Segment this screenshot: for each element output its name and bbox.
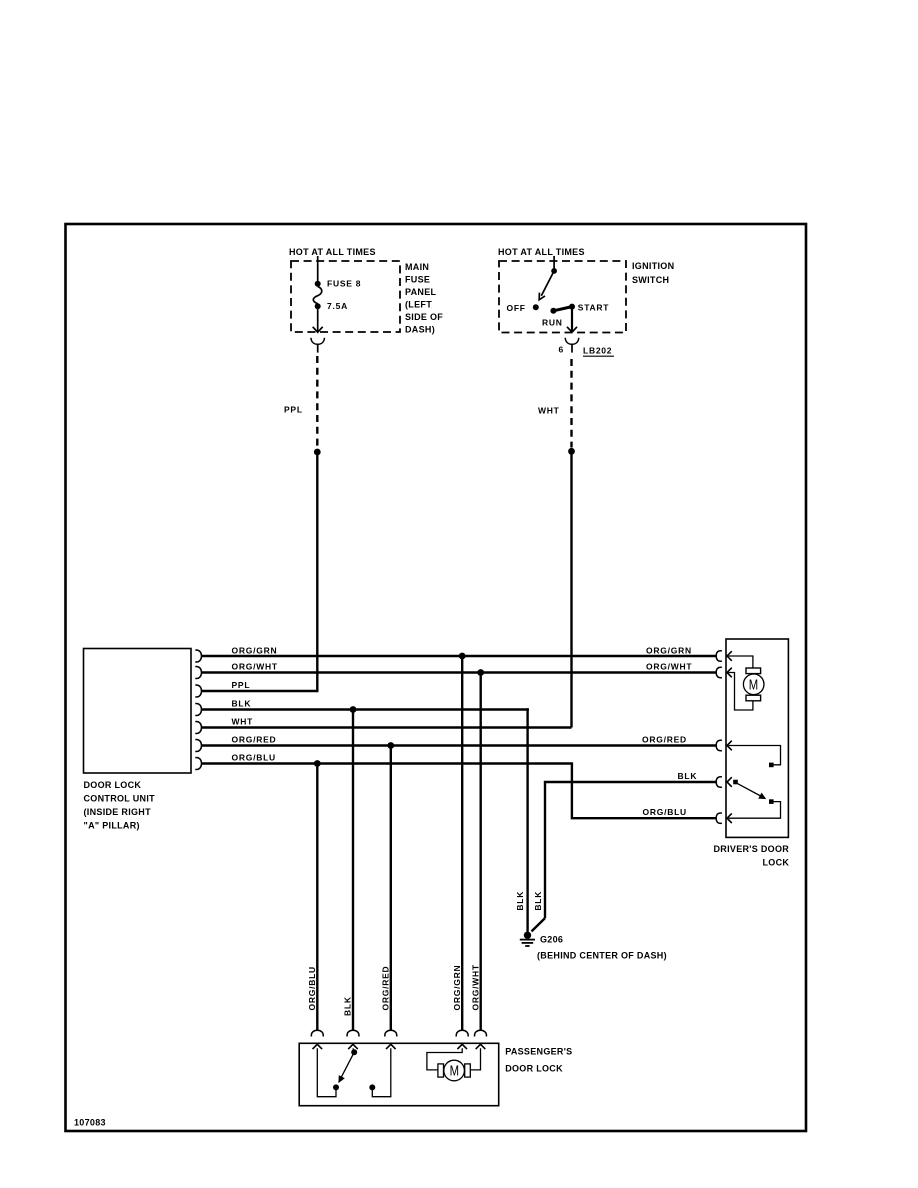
control unit pin fork 5 xyxy=(195,722,201,734)
svg-text:M: M xyxy=(450,1062,459,1079)
connector fork below fuse box xyxy=(311,338,325,345)
svg-text:G206: G206 xyxy=(540,935,563,945)
svg-text:FUSE 8: FUSE 8 xyxy=(327,279,361,289)
svg-text:107083: 107083 xyxy=(74,1118,106,1128)
svg-text:ORG/GRN: ORG/GRN xyxy=(646,646,692,656)
driver arrow ORG/BLU xyxy=(727,813,732,823)
driver switch arm arrowhead xyxy=(758,793,766,800)
junction dot ORG/RED xyxy=(387,742,394,749)
svg-text:SIDE OF: SIDE OF xyxy=(405,312,443,322)
connector fork below ignition box xyxy=(565,338,579,345)
svg-text:PPL: PPL xyxy=(284,405,303,415)
svg-text:"A" PILLAR): "A" PILLAR) xyxy=(84,821,140,831)
driver's door lock box xyxy=(726,639,788,837)
driver fork ORG/GRN xyxy=(716,651,722,661)
svg-text:ORG/WHT: ORG/WHT xyxy=(646,662,692,672)
svg-text:CONTROL UNIT: CONTROL UNIT xyxy=(84,794,156,804)
passenger motor M2 left brush xyxy=(438,1064,444,1077)
passenger motor wiring ORG/WHT xyxy=(470,1048,480,1070)
wire PPL row xyxy=(202,690,319,692)
control unit pin fork 2 xyxy=(195,667,201,679)
driver fork ORG/WHT xyxy=(716,667,722,677)
svg-text:HOT AT ALL TIMES: HOT AT ALL TIMES xyxy=(289,247,376,257)
wire WHT solid down xyxy=(570,451,572,727)
svg-text:IGNITION: IGNITION xyxy=(632,261,674,271)
control unit pin fork 4 xyxy=(195,704,201,716)
svg-text:DOOR LOCK: DOOR LOCK xyxy=(505,1064,563,1074)
svg-text:ORG/BLU: ORG/BLU xyxy=(232,753,276,763)
passenger motor M2 body xyxy=(444,1060,465,1081)
wire fuse to box edge xyxy=(317,309,319,332)
passenger arrow ORG/BLU xyxy=(313,1044,323,1049)
wire BLK diagonal into ground xyxy=(532,918,546,931)
svg-text:ORG/GRN: ORG/GRN xyxy=(452,965,462,1011)
svg-text:LOCK: LOCK xyxy=(763,858,790,868)
wire WHT row xyxy=(202,726,572,728)
junction dot BLK xyxy=(350,706,357,713)
svg-text:6: 6 xyxy=(559,345,564,355)
svg-text:ORG/WHT: ORG/WHT xyxy=(232,662,278,672)
wire START down xyxy=(571,307,573,331)
svg-text:SWITCH: SWITCH xyxy=(632,275,669,285)
fuse F8 element xyxy=(313,286,321,304)
label DRIVER'S DOOR LOCK xyxy=(714,844,790,868)
passenger wiring ORG/BLU to switch xyxy=(317,1048,336,1096)
ignition OFF contact dot xyxy=(533,304,539,310)
wire WHT dashed xyxy=(570,359,572,448)
driver arrow ORG/GRN xyxy=(727,651,732,661)
wire PPL dashed xyxy=(316,356,318,449)
svg-text:DOOR LOCK: DOOR LOCK xyxy=(84,780,142,790)
driver fork BLK xyxy=(716,777,722,787)
driver motor wiring ORG/WHT xyxy=(729,673,753,711)
wire into fuse box xyxy=(317,256,319,282)
svg-text:DASH): DASH) xyxy=(405,325,435,335)
passenger arrow ORG/RED xyxy=(386,1044,396,1049)
svg-text:PASSENGER'S: PASSENGER'S xyxy=(505,1047,572,1057)
svg-text:ORG/RED: ORG/RED xyxy=(232,735,277,745)
driver wiring ORG/BLU xyxy=(729,802,781,819)
control unit pin fork 3 xyxy=(195,685,201,697)
svg-text:FUSE: FUSE xyxy=(405,275,430,285)
fuse F8 bottom terminal dot xyxy=(315,303,321,309)
wire ORG/WHT down to passenger lock xyxy=(480,673,482,1031)
passenger fork ORG/GRN xyxy=(456,1030,468,1036)
wire ORG/RED row xyxy=(202,744,717,746)
label MAIN FUSE PANEL xyxy=(405,262,443,335)
wire ORG/BLU down to passenger lock xyxy=(316,764,318,1031)
svg-text:BLK: BLK xyxy=(678,771,698,781)
svg-text:HOT AT ALL TIMES: HOT AT ALL TIMES xyxy=(498,247,585,257)
fuse F8 top terminal dot xyxy=(315,281,321,287)
svg-text:ORG/WHT: ORG/WHT xyxy=(470,964,480,1010)
svg-text:ORG/BLU: ORG/BLU xyxy=(307,966,317,1010)
passenger switch arm arrowhead xyxy=(338,1075,344,1083)
passenger fork ORG/BLU xyxy=(311,1030,323,1036)
driver motor wiring ORG/GRN xyxy=(729,656,753,668)
wire ORG/RED down to passenger lock xyxy=(390,746,392,1031)
passenger arrow BLK xyxy=(348,1044,358,1049)
passenger fork ORG/RED xyxy=(385,1030,397,1036)
arrow at fuse box exit xyxy=(313,327,323,332)
wire into ignition box xyxy=(553,256,555,269)
driver wiring ORG/RED xyxy=(729,746,781,765)
passenger fork ORG/WHT xyxy=(475,1030,487,1036)
svg-text:ORG/BLU: ORG/BLU xyxy=(643,807,687,817)
passenger arrow ORG/GRN xyxy=(457,1044,467,1049)
junction dot ORG/GRN xyxy=(459,653,466,660)
svg-text:ORG/RED: ORG/RED xyxy=(381,966,391,1011)
driver motor M1 top brush xyxy=(746,668,761,674)
svg-text:PANEL: PANEL xyxy=(405,287,437,297)
svg-text:WHT: WHT xyxy=(232,717,254,727)
driver fork ORG/RED xyxy=(716,740,722,750)
driver switch pivot contact BLK xyxy=(733,780,738,785)
wire ORG/WHT row xyxy=(202,671,717,673)
ignition switch arm arrowhead xyxy=(539,293,545,300)
main fuse panel dashed box xyxy=(291,261,400,332)
wire ORG/BLU row xyxy=(202,764,717,819)
svg-text:7.5A: 7.5A xyxy=(327,301,348,311)
passenger motor M2 right brush xyxy=(465,1064,471,1077)
ignition switch arm pivot dot xyxy=(551,268,557,274)
svg-text:OFF: OFF xyxy=(507,303,526,313)
svg-text:WHT: WHT xyxy=(538,406,560,416)
splice dot PPL xyxy=(314,449,321,456)
ignition RUN-START link xyxy=(553,307,572,311)
wire ORG/GRN down to passenger lock xyxy=(461,656,463,1030)
label PASSENGER'S DOOR LOCK xyxy=(505,1047,572,1074)
driver motor M1 bottom brush xyxy=(746,695,761,701)
svg-text:BLK: BLK xyxy=(533,891,543,911)
svg-text:MAIN: MAIN xyxy=(405,262,429,272)
svg-text:DRIVER'S DOOR: DRIVER'S DOOR xyxy=(714,844,790,854)
wire PPL solid down to control unit row xyxy=(316,452,318,691)
ignition START contact dot xyxy=(569,304,575,310)
passenger switch pivot dot xyxy=(351,1049,357,1055)
ignition RUN contact dot xyxy=(550,308,556,314)
label DOOR LOCK CONTROL UNIT xyxy=(84,780,156,831)
passenger wiring BLK stem xyxy=(353,1048,354,1052)
svg-text:RUN: RUN xyxy=(542,318,563,328)
passenger motor wiring ORG/GRN xyxy=(427,1048,462,1070)
driver fork ORG/BLU xyxy=(716,813,722,823)
svg-text:START: START xyxy=(578,303,610,313)
svg-text:ORG/GRN: ORG/GRN xyxy=(232,646,278,656)
driver arrow ORG/WHT xyxy=(727,668,732,678)
label IGNITION SWITCH xyxy=(632,261,674,285)
svg-text:(LEFT: (LEFT xyxy=(405,300,432,310)
svg-text:M: M xyxy=(749,676,758,693)
svg-text:BLK: BLK xyxy=(515,891,525,911)
passenger wiring ORG/RED to contact xyxy=(372,1048,391,1096)
control unit pin fork 7 xyxy=(195,758,201,770)
svg-text:PPL: PPL xyxy=(232,680,251,690)
wire BLK driver's door row xyxy=(545,782,716,918)
junction dot ORG/WHT xyxy=(477,669,484,676)
wire ORG/GRN row xyxy=(202,655,717,657)
splice dot WHT xyxy=(568,448,575,455)
passenger fork BLK xyxy=(347,1030,359,1036)
driver arrow ORG/RED xyxy=(727,741,732,751)
wire BLK down to passenger lock xyxy=(352,710,354,1031)
driver motor M1 body xyxy=(743,674,764,695)
svg-text:(BEHIND CENTER OF DASH): (BEHIND CENTER OF DASH) xyxy=(537,951,667,961)
svg-text:LB202: LB202 xyxy=(583,346,612,356)
passenger arrow ORG/WHT xyxy=(476,1044,486,1049)
arrow at ignition box exit xyxy=(567,327,577,332)
wire BLK down to ground xyxy=(528,710,529,932)
svg-text:ORG/RED: ORG/RED xyxy=(642,735,687,745)
junction dot ORG/BLU xyxy=(314,760,321,767)
svg-text:BLK: BLK xyxy=(232,699,252,709)
ignition switch arm xyxy=(541,271,554,296)
svg-text:BLK: BLK xyxy=(343,996,353,1016)
control unit pin fork 1 xyxy=(195,650,201,662)
driver switch contact ORG/BLU xyxy=(769,799,774,804)
driver switch arm xyxy=(738,784,764,798)
wire BLK row xyxy=(202,708,529,710)
door lock control unit box xyxy=(84,649,192,774)
driver arrow BLK xyxy=(727,777,732,787)
svg-text:(INSIDE RIGHT: (INSIDE RIGHT xyxy=(84,807,152,817)
driver switch contact ORG/RED xyxy=(769,763,774,768)
passenger switch arm xyxy=(341,1052,354,1077)
ignition switch dashed box xyxy=(499,261,626,333)
ground G206 xyxy=(524,932,531,939)
passenger switch lower contact dot xyxy=(333,1084,339,1090)
border frame xyxy=(66,224,807,1131)
passenger's door lock box xyxy=(299,1043,499,1105)
control unit pin fork 6 xyxy=(195,740,201,752)
passenger middle contact dot xyxy=(369,1084,375,1090)
